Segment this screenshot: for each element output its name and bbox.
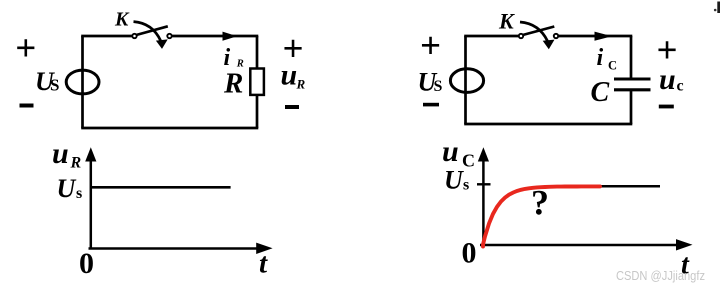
capacitor C bottom plate: [614, 88, 651, 91]
svg-text:R: R: [70, 155, 82, 172]
minus sign (left of US, left circuit): [20, 104, 34, 108]
right graph red charging curve: [483, 186, 600, 246]
wire: left circuit top-right segment: [172, 35, 259, 38]
svg-text:R: R: [223, 68, 243, 100]
wire: right circuit left side: [464, 36, 467, 124]
voltage source US (left): [66, 70, 99, 94]
left graph y-axis arrowhead: [85, 147, 96, 161]
svg-text:c: c: [677, 78, 684, 95]
svg-text:s: s: [76, 185, 82, 202]
switch K arc arrowhead (right circuit): [543, 40, 555, 50]
wire: right circuit right side lower: [630, 90, 633, 124]
svg-text:?: ?: [531, 183, 549, 223]
svg-text:+: +: [15, 28, 36, 69]
wire: left circuit right side upper: [256, 36, 259, 69]
wire: left circuit right side lower: [256, 95, 259, 129]
switch K contact right (right circuit): [554, 34, 558, 38]
svg-text:CSDN @JJjiangfz: CSDN @JJjiangfz: [616, 268, 705, 283]
svg-text:+: +: [420, 26, 441, 67]
wire: right circuit top-left segment: [464, 35, 519, 38]
wire: right circuit bottom: [464, 123, 632, 126]
svg-text:t: t: [259, 248, 268, 280]
minus sign (right of R): [285, 105, 299, 109]
right graph black continuation line: [598, 185, 660, 188]
wire: left circuit left side: [81, 36, 84, 128]
resistor R body: [250, 69, 264, 95]
switch K contact left (left circuit): [132, 34, 136, 38]
svg-text:K: K: [498, 8, 515, 33]
svg-text:C: C: [608, 59, 617, 73]
svg-text:s: s: [463, 177, 469, 194]
right graph y-axis: [482, 159, 485, 245]
svg-text:0: 0: [79, 247, 94, 280]
svg-text:U: U: [444, 166, 464, 195]
switch K closing arc (right circuit): [520, 22, 548, 41]
left graph y-axis: [90, 159, 93, 249]
current arrow iR on top wire: [223, 32, 238, 41]
svg-text:K: K: [114, 9, 130, 31]
minus sign (left of US, right circuit): [423, 103, 439, 107]
svg-text:i: i: [597, 45, 604, 71]
wire: left circuit top-left segment: [81, 35, 132, 38]
switch K contact left (right circuit): [519, 34, 523, 38]
switch K arc arrowhead (left circuit): [156, 39, 168, 49]
switch K closing arc (left circuit): [134, 22, 161, 41]
wire: left circuit bottom: [81, 127, 258, 130]
right graph x-axis: [480, 244, 677, 247]
switch K blade (left circuit): [136, 26, 168, 35]
svg-text:C: C: [591, 77, 610, 108]
svg-text:C: C: [462, 151, 475, 171]
right graph y-axis arrowhead: [478, 147, 489, 161]
svg-text:u: u: [52, 137, 69, 170]
svg-text:S: S: [434, 78, 443, 95]
switch K blade (right circuit): [523, 27, 555, 36]
svg-text:U: U: [57, 174, 77, 203]
svg-text:u: u: [442, 135, 459, 168]
switch K contact right (left circuit): [167, 34, 171, 38]
right graph x-axis arrowhead: [676, 239, 693, 250]
minus sign (right of C): [659, 105, 674, 109]
capacitor C top plate: [614, 77, 651, 80]
svg-text:0: 0: [462, 237, 477, 270]
left graph x-axis arrowhead: [256, 243, 272, 254]
svg-text:u: u: [659, 63, 676, 96]
svg-text:u: u: [281, 59, 298, 92]
voltage source US (right): [450, 69, 483, 93]
left graph x-axis: [89, 247, 259, 250]
wire: right circuit top-right segment: [558, 35, 632, 38]
svg-text:S: S: [50, 76, 59, 95]
current arrow iC on top wire: [595, 32, 613, 41]
cropped glyph artifact top-right corner: [717, 2, 720, 14]
wire: right circuit right side upper: [630, 36, 633, 79]
left graph uR=Us constant line: [91, 186, 231, 189]
right graph Us tick on y-axis: [477, 183, 491, 185]
svg-text:R: R: [296, 77, 306, 92]
